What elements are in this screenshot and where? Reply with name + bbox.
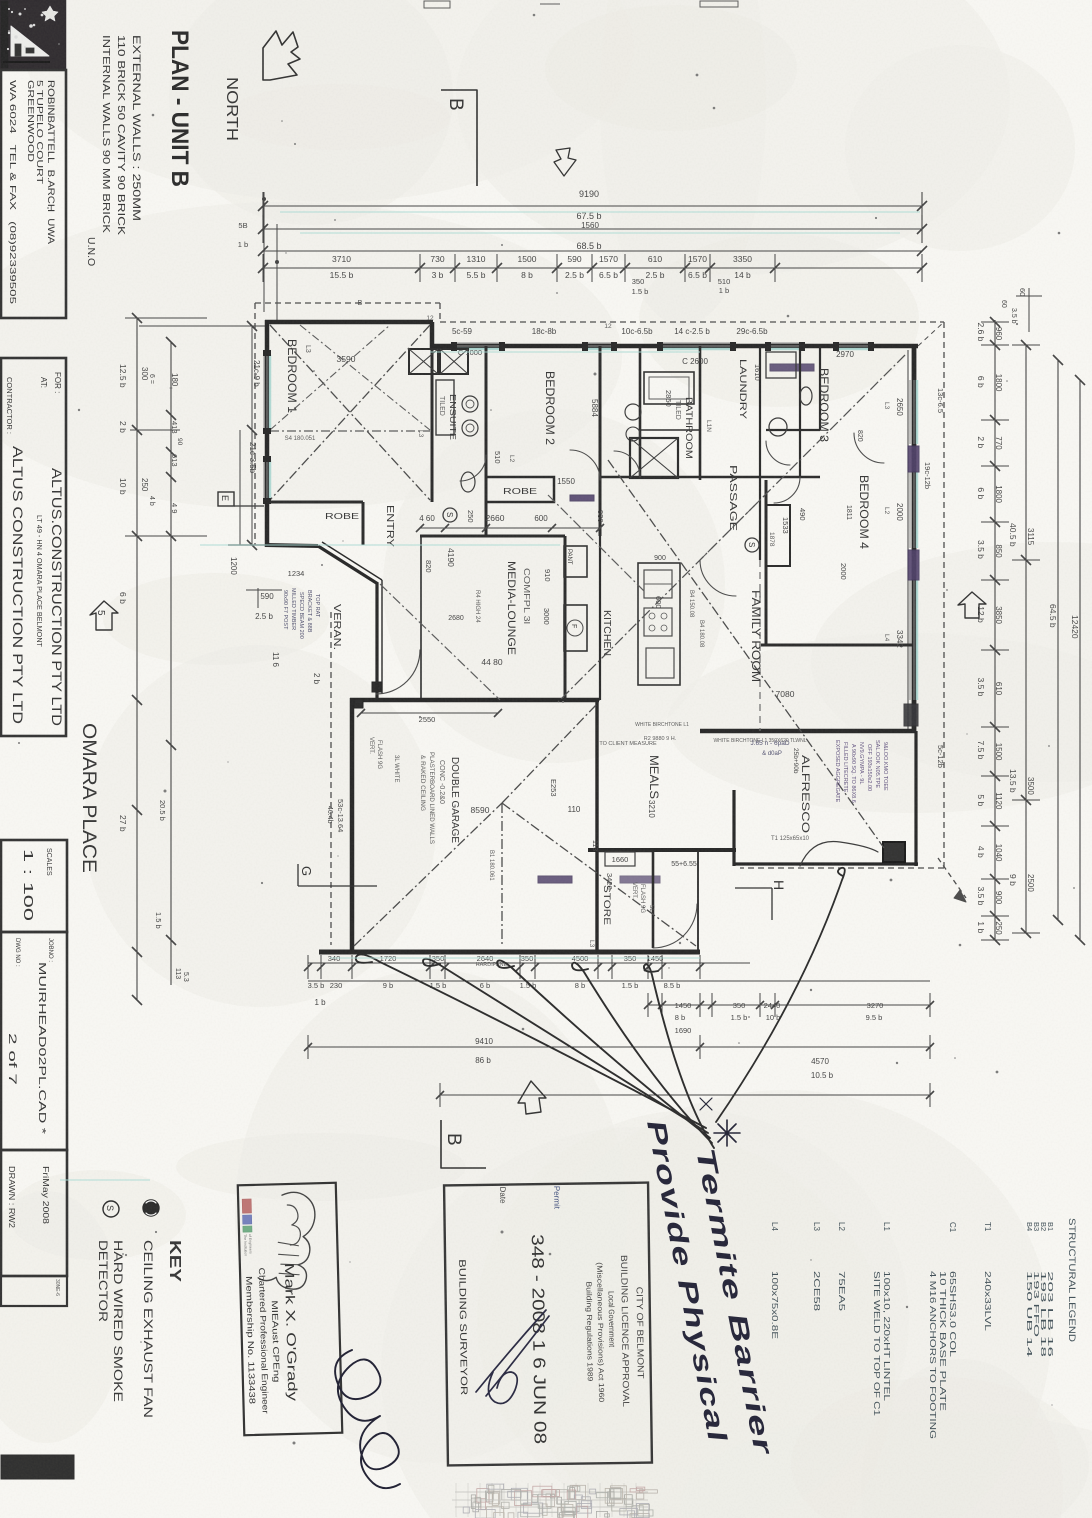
- OMARA PLACE street label: [78, 723, 99, 873]
- legend L2: [837, 1222, 846, 1312]
- garage top wall: [350, 698, 599, 703]
- garage roof diagonals: [354, 704, 696, 946]
- sheet title PLAN - UNIT B: [166, 30, 193, 187]
- family room long diagonal: [608, 460, 884, 848]
- legend L1: [872, 1222, 891, 1417]
- store right return wall: [697, 850, 699, 952]
- room label ENSUITE: [438, 394, 458, 440]
- window sill marks dark: [538, 364, 919, 883]
- legend L3: [812, 1222, 821, 1312]
- engineers australia colour logo: [242, 1199, 252, 1256]
- G marker: [298, 864, 377, 886]
- ceiling exhaust fan symbol: [143, 1200, 159, 1216]
- family/alfresco dividing wall: [700, 729, 916, 734]
- passage dimension line: [416, 524, 604, 532]
- section marker E: [218, 492, 264, 506]
- exterior wall step joint: [430, 322, 435, 348]
- store dims: [588, 852, 697, 948]
- windows on bedroom1 left wall: [264, 355, 270, 500]
- right dimension chain 2: [1008, 340, 1040, 938]
- building licence stamp text: [455, 1185, 647, 1446]
- paper noise overlay: [0, 0, 1, 1]
- room label BEDROOM 2: [543, 371, 555, 445]
- alfresco texts: [635, 722, 888, 842]
- bathroom basin: [625, 404, 641, 441]
- window jamb blocks top wall: [451, 342, 874, 351]
- right dimension chain 1 segmented: [976, 317, 1009, 945]
- ceiling exhaust fan label: [141, 1240, 155, 1418]
- room label KITCHEN: [601, 610, 613, 656]
- room label BEDROOM 1: [285, 339, 311, 413]
- passage dims: [419, 508, 807, 547]
- legend beams B1-B4: [1025, 1222, 1055, 1357]
- left outer dimension chain: [118, 313, 207, 1005]
- bottom dimension chain 4: [436, 1083, 934, 1107]
- NORTH label: [223, 77, 240, 141]
- bottom dimension chain 1: [304, 954, 930, 1007]
- top dimension chain 4 segmented: [258, 254, 927, 307]
- room label MEALS: [647, 755, 659, 799]
- handwritten note PROVIDE PHYSICAL: [641, 1117, 733, 1445]
- north arrow: [263, 31, 300, 80]
- building licence approval stamp box: [444, 1183, 652, 1466]
- room label DOUBLE GARAGE: [419, 752, 461, 845]
- roof overhang dashed outline: [255, 303, 966, 945]
- kitchen bench and island: [638, 563, 680, 685]
- room label BATHROOM: [674, 397, 694, 459]
- room label BEDROOM 4: [857, 475, 869, 550]
- exterior wall bedroom1 left: [265, 320, 270, 547]
- bathroom module walls: [639, 346, 642, 477]
- wc walls: [819, 346, 821, 430]
- wall notes text: [85, 35, 142, 266]
- left porch dims: [246, 569, 321, 685]
- exterior wall right: [912, 344, 917, 733]
- media diagonal: [548, 495, 645, 592]
- engineer certification stamp: [238, 1183, 343, 1435]
- front wall at garage: [319, 950, 700, 955]
- asterisk marks: [700, 1098, 740, 1146]
- bedroom4 robe: [766, 505, 790, 566]
- building surveyor signature: [476, 1310, 549, 1404]
- smoke detector key symbol: [103, 1201, 119, 1217]
- alfresco right wall: [914, 731, 917, 866]
- passage wall to family: [759, 477, 761, 560]
- room label STORE: [602, 885, 612, 925]
- room label LAUNDRY: [737, 359, 748, 420]
- bedroom1 dims: [285, 354, 456, 567]
- garage dims: [326, 737, 494, 881]
- store door arc: [653, 904, 697, 948]
- alfresco left wall: [732, 790, 735, 866]
- bedroom3/4 dims: [839, 398, 904, 648]
- bathroom laundry dims: [664, 350, 863, 520]
- windows on right wall: [910, 380, 917, 700]
- wc toilet: [800, 387, 812, 405]
- bedroom1 mid dash line: [270, 430, 430, 432]
- meals/family boundary dash: [759, 560, 761, 731]
- bedroom2 dims: [458, 348, 709, 486]
- left inner dimension chain near bedroom1: [139, 321, 266, 575]
- right top 60 tick: [1000, 288, 1042, 332]
- right wall course labels: [923, 388, 945, 768]
- engineer stamp text: [244, 1263, 301, 1415]
- wall bedroom1/ensuite: [431, 348, 434, 502]
- linen crossed boxes at top: [409, 349, 468, 374]
- exterior wall bedroom1 module top: [265, 320, 433, 325]
- ensuite/bed2 wall: [485, 346, 488, 536]
- legend L4: [770, 1222, 779, 1339]
- title block: logo cell: [1, 1, 65, 68]
- top edge scan marks: [424, 1, 738, 8]
- top dimension chain line 2 (67.5 b / 1560): [258, 211, 927, 243]
- kitchen wall: [599, 536, 601, 700]
- laundry trough and appliance: [766, 352, 796, 436]
- bed2 robe box: [486, 477, 554, 502]
- bedroom4 walls: [765, 480, 768, 645]
- pantry box: [564, 546, 587, 577]
- kitchen/meals wall segment: [595, 700, 598, 952]
- laundry walls: [759, 346, 761, 477]
- title block: FOR/AT/CONTRACTOR box: [1, 358, 66, 736]
- passage/media wall: [420, 535, 565, 538]
- store walls: [597, 850, 653, 853]
- room label BEDROOM 3: [817, 368, 829, 442]
- fridge box: [564, 605, 587, 651]
- bottom dimension chain 3: [304, 1035, 934, 1080]
- right side block arrow: [958, 592, 986, 618]
- media dims: [424, 560, 552, 667]
- title block: date box: [1, 1150, 67, 1276]
- robe band walls bedroom1: [267, 501, 363, 504]
- right dimension chain 4 (12420): [1070, 375, 1085, 945]
- right dimension chain 3 (64.5 b): [1048, 355, 1063, 925]
- window jamb blocks bedroom1 left wall: [263, 350, 271, 504]
- room label ALFRESCO: [799, 755, 811, 834]
- faint mini plan thumbnail: [452, 1483, 657, 1518]
- room label ENTRY: [384, 505, 395, 547]
- exterior wall main top: [430, 344, 918, 349]
- smoke detector symbols: [443, 508, 759, 552]
- top chain extension lines: [262, 192, 279, 322]
- porch text cluster: [282, 588, 320, 639]
- sheet marker 5 pentagon arrow: [90, 601, 118, 630]
- meals bottom wall: [588, 848, 736, 852]
- section marker B bottom: [441, 1120, 486, 1168]
- KEY header: [166, 1240, 183, 1282]
- bathroom bath tub: [644, 372, 694, 404]
- legend T1: [983, 1222, 992, 1332]
- title block: revision box: [1, 1276, 67, 1306]
- garage left wall: [350, 698, 355, 954]
- porch side wall: [375, 583, 378, 698]
- porch post blocks: [372, 682, 381, 692]
- legend C1: [928, 1222, 957, 1439]
- windows on top wall: [455, 343, 868, 349]
- top small block arrow: [554, 148, 576, 176]
- alfresco bottom wall: [734, 862, 918, 865]
- door arcs: [376, 433, 884, 730]
- smoke detector label: [96, 1240, 125, 1402]
- room label PASSAGE: [727, 465, 738, 531]
- structural legend header: [1067, 1218, 1077, 1343]
- H marker: [735, 880, 787, 920]
- cyan scan streaks: [60, 212, 920, 1180]
- entry/media diagonal: [380, 584, 500, 700]
- family secondary diagonal: [700, 500, 760, 560]
- bottom block arrow P: [518, 1081, 546, 1114]
- family kitchen meals dims: [471, 555, 807, 851]
- media right wall: [564, 536, 567, 700]
- room label FAMILY ROOM: [749, 590, 761, 682]
- top dimension chain line 1 (9190): [238, 189, 927, 249]
- engineer signature: [335, 1350, 400, 1488]
- NE roof hip long diagonal: [558, 355, 905, 702]
- title block: dark bottom bar: [1, 1455, 74, 1479]
- termite note leader curves: [356, 868, 845, 1148]
- section marker B top: [441, 90, 477, 186]
- ensuite fixtures: [436, 380, 478, 492]
- room label MEDIA-LOUNGE: [505, 561, 531, 655]
- top dimension chain line 3 (68.5 b): [258, 241, 927, 256]
- bedroom1 ceiling diagonals: [270, 325, 430, 500]
- handwritten note TERMITE BARRIER: [690, 1145, 779, 1458]
- alfresco corner column: [800, 842, 905, 867]
- garage internal dim 2550: [357, 709, 502, 724]
- robe1 bottom wall and porch diagonal: [265, 545, 318, 546]
- wall course labels above top wall: [426, 315, 768, 336]
- bathroom shower: [630, 438, 678, 478]
- room label VERANDAH: [331, 604, 342, 650]
- title block: scales box: [1, 840, 67, 932]
- bottom dimension chain 2 right: [644, 993, 934, 1035]
- bedroom2 right wall: [599, 346, 602, 536]
- title block: architect info box: [1, 70, 66, 318]
- title block: job number box: [1, 932, 67, 1150]
